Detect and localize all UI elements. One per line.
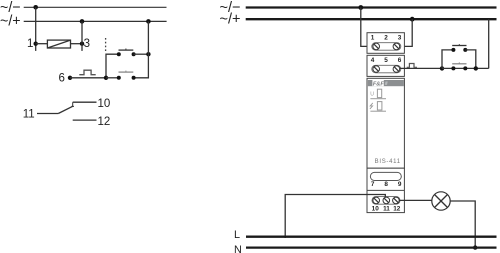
junction on ~/+ rail at terminal 3 (80, 19, 85, 24)
svg-text:6: 6 (59, 73, 65, 85)
pulse symbol (left) (79, 70, 95, 75)
wire terminal 6 to junction (70, 77, 106, 79)
mechanical link dashed (105, 38, 107, 52)
svg-text:10: 10 (98, 98, 111, 110)
wire terminal 12 to lamp (399, 199, 431, 201)
wire upper branch right (465, 50, 476, 69)
push button S2 (lower, schematic) (117, 76, 121, 80)
terminal 3 node (80, 42, 84, 46)
junction lower branch right (474, 66, 478, 70)
wire rail ~/+ (left) (24, 20, 167, 22)
changeover contact common wire (37, 113, 58, 115)
wire to terminal 10 (73, 101, 97, 103)
svg-text:F&F: F&F (373, 81, 384, 87)
push button S2 (wall) (451, 66, 455, 70)
svg-text:11: 11 (383, 205, 390, 212)
svg-text:5: 5 (384, 57, 388, 64)
svg-text:9: 9 (398, 181, 402, 188)
svg-text:U: U (370, 92, 374, 98)
svg-text:6: 6 (398, 57, 402, 64)
svg-text:BIS-411: BIS-411 (375, 159, 401, 165)
busbar ~/+ (246, 18, 497, 20)
screw terminal 6 (393, 66, 400, 73)
svg-text:N: N (234, 244, 242, 253)
push button S1 (wall) (451, 48, 455, 52)
wire L to terminal 11 (285, 195, 385, 239)
label window (370, 172, 401, 180)
svg-text:~/+: ~/+ (220, 11, 241, 28)
svg-text:3: 3 (398, 35, 402, 42)
screw terminal 3 (393, 43, 400, 50)
busbar ~/- (246, 6, 497, 8)
screw terminal 10 (373, 197, 380, 204)
svg-text:1: 1 (371, 35, 375, 42)
terminal slot 1-3 (372, 43, 401, 51)
svg-text:11: 11 (23, 108, 35, 120)
junction on N busbar (473, 245, 477, 249)
lamp E1 (432, 192, 450, 210)
divider line (367, 189, 404, 191)
busbar N (246, 246, 497, 248)
svg-text:7: 7 (371, 181, 375, 188)
screw terminal 4 (373, 66, 380, 73)
function pictogram lamp pulse (370, 103, 373, 109)
module body U1 BIS-411 (367, 78, 404, 168)
junction on ~/- rail (33, 5, 38, 10)
wire from ~/+ to terminal 3 (81, 21, 83, 51)
svg-text:12: 12 (98, 116, 111, 128)
junction on ~/+ rail right (146, 19, 151, 24)
svg-text:10: 10 (372, 205, 380, 212)
terminal slot 4-6 (372, 65, 401, 73)
svg-text:8: 8 (384, 181, 388, 188)
svg-text:1: 1 (27, 38, 33, 50)
wire ~/+ down and around to lower contact (134, 21, 149, 77)
junction on ~/- busbar (358, 5, 363, 10)
screw terminal 12 (393, 197, 400, 204)
wire terminal1 to coil box (36, 43, 48, 45)
module terminal block 4-5-6 (367, 55, 404, 76)
wire junction to lower contact (106, 77, 119, 79)
module terminal block 1-2-3 (367, 33, 404, 54)
wire coil box to terminal 3 (71, 43, 83, 45)
svg-text:12: 12 (393, 205, 401, 212)
svg-text:~/+: ~/+ (0, 13, 21, 30)
svg-text:4: 4 (371, 57, 375, 64)
module lower block (367, 168, 404, 212)
busbar L (246, 236, 497, 238)
wire buttons to ~/+ busbar (488, 19, 490, 68)
junction at buttons left (440, 66, 444, 70)
junction node lower left (104, 76, 108, 80)
screw terminal 11 (383, 197, 390, 204)
svg-text:L: L (234, 229, 240, 241)
wire from ~/- to terminal 1 (35, 7, 37, 51)
wire rail ~/- (left) (24, 6, 167, 8)
F&F logo band (368, 80, 404, 86)
push button S1 (upper, schematic) (117, 52, 121, 56)
pulse symbol (right) (407, 64, 417, 68)
screw terminal 1 (373, 43, 380, 50)
contact 10 stub (71, 102, 74, 106)
relay coil box K1 (47, 40, 70, 48)
svg-text:3: 3 (84, 38, 90, 50)
wire lower branch (442, 67, 489, 69)
wire terminal 6 to buttons (400, 67, 442, 69)
junction upper branch (146, 52, 150, 56)
wire corner to upper contact (106, 54, 119, 78)
terminal 1 node (34, 42, 38, 46)
terminal 6 node (68, 76, 72, 80)
wire terminal 12 (73, 119, 97, 121)
junction on ~/+ busbar (410, 17, 415, 22)
svg-text:2: 2 (384, 35, 388, 42)
wire upper contact to right vertical (134, 53, 149, 55)
changeover contact arm (58, 106, 72, 113)
wire ~/- to terminal 1 (361, 8, 373, 47)
terminal slot 10-12 (372, 197, 400, 205)
wire ~/+ to terminal 3 (400, 19, 413, 46)
wire up to upper button branch (442, 50, 453, 69)
wire lamp to N (450, 201, 475, 248)
